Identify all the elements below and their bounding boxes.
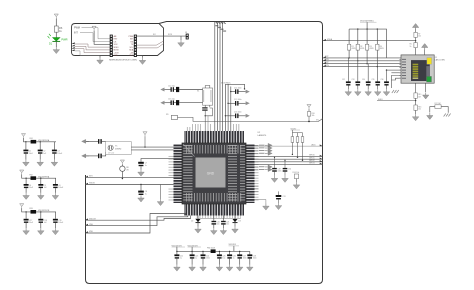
RJ45 left pin stubs <box>399 59 401 78</box>
mikroBUS socket outline <box>72 24 164 56</box>
svg-text:VDDCR: VDDCR <box>89 218 96 220</box>
wire net3 to frame edge <box>255 160 323 162</box>
svg-text:X1: X1 <box>197 91 199 93</box>
ferrite bead FB2 <box>31 176 37 180</box>
ground C7 <box>138 170 145 177</box>
cap C23 <box>190 251 199 265</box>
right pin arrows <box>265 143 272 147</box>
cap C4 <box>24 178 33 193</box>
svg-text:D3: D3 <box>239 221 241 223</box>
cap Ce4 <box>372 67 381 90</box>
resistor R17 horizontal <box>435 103 442 109</box>
wire bus 6 <box>227 84 229 131</box>
wire GPIO0 to frame edge <box>255 144 323 146</box>
wire bus top 1 <box>214 22 216 131</box>
board outline frame <box>86 22 323 284</box>
wire flag down <box>121 164 123 166</box>
wire wedge1 to header pin <box>75 44 110 47</box>
cap C24 <box>201 251 210 265</box>
svg-text:GPIO3: GPIO3 <box>309 163 315 165</box>
svg-text:10uF: 10uF <box>29 222 33 224</box>
svg-text:LAN CONN: LAN CONN <box>435 58 445 61</box>
svg-text:GPIO0: GPIO0 <box>309 155 315 157</box>
resistor R5 1k <box>410 43 418 48</box>
svg-text:C15 100n: C15 100n <box>234 99 242 101</box>
power flag LED rail <box>54 14 58 18</box>
MCU left pin band <box>174 144 183 203</box>
svg-text:D2: D2 <box>191 221 193 223</box>
wire net2 to frame edge <box>255 158 323 160</box>
svg-text:10k: 10k <box>418 36 421 38</box>
RJ45 jack J1 body <box>401 55 434 83</box>
MCU pin name smudges left column <box>183 145 195 202</box>
wire osc to MCU <box>204 111 206 131</box>
row left 2: arrow + cap + bead <box>160 99 202 106</box>
cap Ce3 <box>362 64 371 89</box>
svg-text:1uF: 1uF <box>44 222 47 224</box>
svg-text:100n: 100n <box>243 258 247 260</box>
RJ45 yellow LED <box>427 58 432 65</box>
ground header P1 <box>100 55 110 57</box>
wire jack pins 7-8 collect <box>391 76 401 89</box>
crystal Y1 symbol <box>108 145 113 150</box>
wire crystal to MCU 1 <box>131 146 173 148</box>
cap C25 <box>217 251 226 265</box>
wire bus 7 <box>230 87 232 132</box>
wire R5 to R7 <box>415 41 417 43</box>
header P1 left mikrobus <box>110 35 113 57</box>
resistor R1 49R9 <box>347 29 355 58</box>
ground C21 <box>222 225 224 228</box>
resistor R13 <box>301 137 304 143</box>
ground header P2 <box>137 55 143 57</box>
pull-up rail <box>292 130 302 137</box>
MCU left lead comb <box>169 155 174 177</box>
svg-text:1u: 1u <box>195 258 197 260</box>
svg-text:C32: C32 <box>342 79 345 81</box>
svg-text:PWR: PWR <box>61 38 67 42</box>
cap C28 <box>247 251 256 264</box>
wire to cap <box>86 140 98 142</box>
ground J5 <box>180 36 182 40</box>
RJ45 cavity <box>411 60 430 81</box>
wire SDA to box edge <box>137 44 164 48</box>
cap Ce5 <box>381 70 389 89</box>
oscillator inner marks <box>203 90 211 102</box>
diode D2 below MCU <box>191 216 201 223</box>
svg-text:INT: INT <box>74 32 78 35</box>
svg-text:VDD33PHYA: VDD33PHYA <box>38 175 50 178</box>
wire flag to rail g1 <box>24 138 57 142</box>
svg-text:100n: 100n <box>278 171 282 173</box>
svg-text:MOSI: MOSI <box>114 50 119 52</box>
ferrite bead FB3 <box>31 210 37 214</box>
cap C3 <box>52 142 62 160</box>
svg-text:PWM: PWM <box>74 27 80 30</box>
wire VDDCR stair from MCU <box>85 216 191 221</box>
cap C2 <box>38 141 46 160</box>
wire MCU to C7 <box>141 159 174 162</box>
wire circle to rail <box>121 171 123 178</box>
RJ45 green LED <box>427 76 432 82</box>
svg-text:10n: 10n <box>226 224 229 226</box>
net arrow up R7 <box>415 29 417 33</box>
resistor R15 <box>414 93 421 99</box>
resistor R7 10k <box>414 32 421 37</box>
cap C26 <box>227 251 236 265</box>
MCU pin name smudges top row <box>186 145 243 156</box>
bottom power rail <box>177 250 211 252</box>
svg-text:C13 22p: C13 22p <box>168 99 175 101</box>
ground D3 <box>234 223 236 227</box>
svg-text:FB2: FB2 <box>29 174 32 176</box>
wire TXP from frame <box>323 56 401 58</box>
wire left from junction <box>377 100 416 102</box>
MCU bottom stub comb <box>195 216 241 219</box>
svg-text:C30: C30 <box>288 169 291 171</box>
ground LED <box>53 47 60 54</box>
wire bus top 2 <box>216 22 218 131</box>
wire CML stair from MCU <box>85 216 188 226</box>
svg-text:49R9: 49R9 <box>370 48 374 50</box>
wire jack pin5 <box>387 69 401 71</box>
svg-text:PWM: PWM <box>129 36 134 38</box>
wire RXN from frame <box>323 65 401 67</box>
power flag small cluster <box>120 160 124 164</box>
wire P2 top pin to 3V3 rail <box>137 35 186 37</box>
RJ45 contacts <box>413 64 419 77</box>
wire LED top <box>55 18 57 26</box>
label VDD3B <box>188 244 202 251</box>
series cap crystal 1 <box>98 139 102 144</box>
svg-text:MIKROBUS DEVICE CONN: MIKROBUS DEVICE CONN <box>109 60 137 62</box>
wire 3V3 net from left edge <box>85 176 174 178</box>
pin labels P2 <box>129 36 134 57</box>
wire PWM step <box>82 28 110 39</box>
svg-text:GND: GND <box>114 55 119 57</box>
cap C6 <box>53 178 63 193</box>
cap C18 <box>38 211 47 228</box>
wire LED to ground <box>55 41 57 47</box>
svg-text:CML: CML <box>89 224 93 226</box>
oscillator X1 box <box>203 88 213 105</box>
svg-text:+3.3V: +3.3V <box>114 52 120 54</box>
wire label to term rail <box>366 22 368 29</box>
svg-text:R17 1M: R17 1M <box>435 103 442 105</box>
component L1 circle <box>120 166 130 172</box>
wires pull-ups down <box>292 142 302 160</box>
chassis earth near caps <box>392 90 399 93</box>
wire TXN from frame <box>323 59 401 61</box>
row right 2: cap + arrow <box>227 99 249 106</box>
bus entry wedges left edge <box>72 42 75 44</box>
resistor R2 49R9 <box>356 29 364 61</box>
pull-up network label VDD <box>291 128 301 130</box>
tant cap C8 <box>138 184 147 196</box>
header P2 right mikrobus <box>134 35 137 57</box>
ground mid <box>160 185 162 200</box>
svg-text:C12 22p: C12 22p <box>168 85 175 87</box>
wire net1 to frame edge <box>255 155 323 157</box>
resistor R6 <box>54 26 58 32</box>
svg-text:SHLD: SHLD <box>378 99 383 101</box>
svg-text:10k: 10k <box>312 115 315 117</box>
svg-text:C16 100n: C16 100n <box>234 112 242 114</box>
wire crystal to MCU 2 <box>131 149 173 151</box>
MCU top pin band <box>184 131 244 143</box>
svg-text:1uF: 1uF <box>44 187 47 189</box>
resistor R14 pulldown <box>293 172 300 182</box>
cap Ce1 <box>342 58 351 89</box>
wire bus top 3 <box>219 22 221 131</box>
MCU body <box>182 143 246 204</box>
svg-text:100nF: 100nF <box>57 153 62 155</box>
svg-text:100n: 100n <box>206 258 210 260</box>
power flag osc <box>143 132 147 136</box>
cap C30 right of MCU <box>283 160 291 176</box>
cap C1 <box>23 141 32 160</box>
svg-text:100nF: 100nF <box>58 222 63 224</box>
resistor R3 49R9 <box>365 29 373 64</box>
resistor R16 <box>414 105 421 111</box>
MCU bottom pin band <box>184 204 244 216</box>
svg-text:10n: 10n <box>217 224 220 226</box>
MCU exposed pad GND <box>196 158 226 188</box>
wire power to header <box>94 31 110 45</box>
bottom rail cluster: label VDD3A <box>172 244 186 251</box>
ferrite bead FB1 <box>31 140 37 144</box>
row right 1: cap + arrow <box>230 87 250 94</box>
svg-text:MISO: MISO <box>114 47 119 49</box>
tant cap C7 <box>138 162 147 170</box>
chassis earth right <box>444 114 451 117</box>
svg-text:1u: 1u <box>145 194 147 196</box>
cap C29 right of MCU <box>272 157 281 176</box>
wire cap to crystal box <box>102 140 106 142</box>
header J5 2pin <box>186 34 189 40</box>
MCU U2 LAN8670 top pin leads <box>187 116 239 131</box>
ground D2 <box>197 223 199 227</box>
wire VDDIO net from left edge <box>85 183 174 185</box>
cap C22 <box>174 251 183 265</box>
MCU bottom-right ground <box>255 200 266 204</box>
svg-text:C33: C33 <box>352 79 355 81</box>
svg-text:C9 C10: C9 C10 <box>108 152 114 154</box>
resistor R12 <box>296 137 299 143</box>
RJ45 internal pin labels <box>402 59 406 79</box>
svg-text:10uF: 10uF <box>29 187 33 189</box>
MCU bottom stub bus <box>196 217 241 219</box>
wire R6 to LED <box>55 32 57 37</box>
cap C27 <box>237 251 246 265</box>
resistor R9 <box>166 114 323 121</box>
diode D3 below MCU <box>233 216 241 223</box>
MCU right lead comb <box>255 145 259 202</box>
svg-text:C36: C36 <box>381 79 384 81</box>
wire wedge3 to header pin <box>75 49 110 53</box>
svg-text:1k: 1k <box>410 46 412 48</box>
pullup R10 on IRQ line <box>307 105 315 123</box>
MCU right leads short <box>255 145 259 191</box>
cap C19 <box>53 212 63 228</box>
wire flag to rail g3 <box>22 208 56 212</box>
wire VDD stair from MCU <box>85 214 185 234</box>
termination rail <box>349 29 386 58</box>
wire jack shield top <box>415 48 417 55</box>
series cap crystal 2 <box>98 154 102 159</box>
power flag group1 <box>21 134 25 138</box>
MCU right pin band <box>246 144 255 203</box>
svg-text:1u: 1u <box>233 258 235 260</box>
power flag group3 <box>20 204 24 208</box>
svg-text:1uF: 1uF <box>43 153 46 155</box>
svg-text:49R9: 49R9 <box>360 48 364 50</box>
wire SCL to box edge <box>137 41 164 45</box>
power flag mikrobus 3V3 <box>92 26 96 30</box>
svg-text:LAN8670: LAN8670 <box>258 134 268 137</box>
net arrow down jack <box>425 83 427 92</box>
ferrite bead FB4 <box>211 249 216 253</box>
wire to cap 2 <box>86 155 98 157</box>
svg-text:10n: 10n <box>418 109 421 111</box>
svg-text:C31: C31 <box>283 196 286 198</box>
svg-text:C35: C35 <box>372 79 375 81</box>
svg-text:1u: 1u <box>180 258 182 260</box>
wire osc top <box>205 86 210 89</box>
svg-text:VDD33PHYB: VDD33PHYB <box>38 210 50 212</box>
crystal input arrow 2 <box>82 154 89 158</box>
cap C17 <box>24 211 33 228</box>
net label VDD33TRMD <box>360 20 377 22</box>
wire wedge2 to header pin <box>75 46 110 50</box>
cap C20 below MCU <box>212 216 220 226</box>
cap C5 <box>38 178 46 193</box>
MCU pin name smudges right column <box>228 145 245 202</box>
svg-text:25MHz: 25MHz <box>115 149 121 151</box>
wire RXP from frame <box>323 62 401 64</box>
svg-text:LED1: LED1 <box>311 144 316 146</box>
svg-text:49R9: 49R9 <box>380 48 384 50</box>
MCU pin1 diagonal marker <box>183 144 195 157</box>
wire bus feed <box>225 84 244 89</box>
wire net4 to frame edge <box>255 163 323 165</box>
power flag group2 <box>20 170 24 174</box>
net arrow up LED line <box>424 49 426 55</box>
wire R17 right to earth <box>441 107 448 113</box>
wire VDD33A from frame <box>323 38 416 41</box>
load caps osc <box>205 105 210 107</box>
svg-text:FB1: FB1 <box>30 138 33 140</box>
LED D1 PWR green <box>48 34 68 46</box>
label VDD5 <box>229 244 240 251</box>
ground C8 <box>138 195 145 202</box>
svg-text:GND: GND <box>129 55 134 57</box>
row left 1: arrow + cap + bead <box>160 85 202 92</box>
svg-text:10u: 10u <box>222 258 225 260</box>
svg-text:FB4 600R: FB4 600R <box>207 248 216 250</box>
cap Ce2 <box>352 61 361 89</box>
resistor R11 <box>291 137 294 143</box>
wire INT step <box>80 33 110 42</box>
svg-text:100nF: 100nF <box>58 187 63 189</box>
wire R15 junction <box>415 98 417 105</box>
svg-text:FB3: FB3 <box>29 208 32 210</box>
wire jack bottom chain <box>415 83 417 93</box>
MCU pin name smudges bottom row <box>186 193 243 204</box>
ground C20 <box>213 225 215 228</box>
svg-text:49R9: 49R9 <box>352 48 356 50</box>
row right 3: cap + arrow <box>225 112 250 119</box>
svg-text:100n: 100n <box>253 258 257 260</box>
net flags top wires <box>215 25 226 32</box>
svg-text:R9: R9 <box>166 114 168 116</box>
svg-text:C34: C34 <box>362 79 365 81</box>
svg-text:SCL: SCL <box>130 47 134 49</box>
RJ45 plug notch <box>426 66 430 76</box>
svg-text:1u: 1u <box>145 165 147 167</box>
svg-text:VDD: VDD <box>89 231 94 233</box>
wire jack pin6 <box>391 72 401 74</box>
net entry wedges top edge <box>215 21 226 24</box>
wire cap2 to crystal box <box>102 152 106 156</box>
wire flag to rail g2 <box>22 174 56 178</box>
svg-text:10uF: 10uF <box>29 153 33 155</box>
cap C21 below MCU <box>221 216 229 226</box>
crystal input arrow 1 <box>82 139 89 143</box>
ground R16 <box>415 110 417 114</box>
svg-text:MDIO/MDC: MDIO/MDC <box>221 83 231 85</box>
right external label smudges <box>259 145 265 170</box>
tant cap C31 <box>276 191 286 203</box>
pin labels P1 <box>114 35 120 57</box>
wire bus 5 <box>224 84 226 131</box>
wire bus top 4 <box>222 22 224 131</box>
wire wedge4 GND <box>75 51 110 56</box>
svg-text:GND: GND <box>207 172 215 176</box>
svg-text:C14 100n: C14 100n <box>234 87 242 89</box>
crystal Y1 box <box>106 142 132 155</box>
resistor R4 49R9 <box>376 29 384 67</box>
wire R17 left to arrow <box>430 107 435 113</box>
